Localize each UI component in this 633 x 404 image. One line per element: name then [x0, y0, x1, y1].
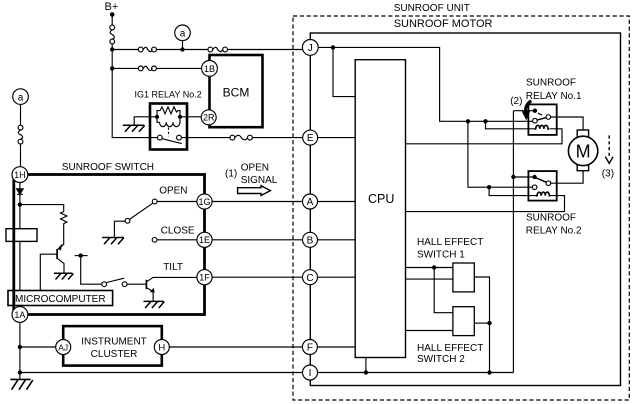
- motor M: [568, 136, 597, 165]
- svg-text:B+: B+: [105, 1, 119, 13]
- wire to relay2 NO contact: [468, 121, 532, 187]
- pin 1E: [197, 232, 212, 247]
- IG1 relay switch: [157, 128, 181, 144]
- fuse F3 (J-line right): [208, 47, 228, 52]
- SECTION:BOTTOMLEFT: [212, 3, 629, 400]
- pin 2R: [201, 110, 216, 125]
- ground (under Q1): [54, 273, 74, 279]
- node junction tilt feed: [75, 253, 102, 284]
- svg-text:1F: 1F: [199, 273, 210, 283]
- wire hall2 output: [474, 322, 489, 324]
- fuse F2 (J-line left): [138, 47, 156, 52]
- node junction I branch: [18, 370, 22, 374]
- connector F: [302, 340, 317, 355]
- (1) OPEN SIGNAL annotation: [225, 163, 278, 186]
- wire IG1 coil to pin 2R: [182, 116, 201, 118]
- node junction AJ branch: [18, 345, 22, 349]
- pin 1A: [12, 307, 28, 323]
- wire IG1 coil to ground: [134, 117, 155, 125]
- B+ supply terminal: [105, 1, 119, 17]
- SECTION:LEFT: [6, 162, 212, 322]
- svg-text:B: B: [307, 235, 314, 246]
- svg-text:OPEN: OPEN: [159, 186, 187, 197]
- svg-text:1E: 1E: [199, 235, 210, 245]
- connector C: [303, 270, 318, 285]
- ground (under Q2): [144, 301, 165, 308]
- node IG1 coil right: [178, 115, 182, 119]
- fuse F5 (E-line): [230, 135, 252, 140]
- wire 1A to ground rail: [19, 322, 21, 379]
- svg-text:M: M: [576, 141, 591, 161]
- diode D1: [17, 189, 24, 195]
- svg-text:IG1 RELAY No.2: IG1 RELAY No.2: [135, 89, 202, 99]
- hall effect switch 2 box: [453, 307, 474, 336]
- svg-text:SWITCH 2: SWITCH 2: [417, 354, 465, 365]
- fuse F6: [18, 125, 23, 144]
- wire relay2 output to motor: [551, 171, 583, 184]
- connector a (top): [175, 25, 191, 50]
- node junction hall branch: [432, 265, 436, 269]
- wire to AJ: [20, 346, 56, 348]
- svg-text:MICROCOMPUTER: MICROCOMPUTER: [15, 294, 106, 305]
- wire relay1 coil left lead: [486, 121, 536, 129]
- component box (switch illumination): [6, 229, 37, 242]
- svg-text:(2): (2): [510, 96, 522, 107]
- relay1 NC contact (to ground rail): [513, 109, 542, 116]
- svg-text:2R: 2R: [203, 113, 215, 123]
- wire 1E to B to CPU: [212, 239, 355, 241]
- svg-text:A: A: [307, 197, 314, 208]
- pin 1F: [197, 270, 212, 285]
- BCM module box: [210, 55, 263, 127]
- connector A: [303, 194, 318, 209]
- IG1 relay resistor: [157, 107, 180, 117]
- ground (OPEN switch): [102, 238, 124, 245]
- svg-text:OPEN: OPEN: [241, 163, 269, 174]
- wire H to connector F: [169, 346, 302, 348]
- node junction J/CPU branch: [331, 45, 335, 49]
- ground (main, bottom left): [10, 379, 32, 389]
- svg-text:SUNROOF MOTOR: SUNROOF MOTOR: [394, 18, 493, 30]
- svg-text:CLOSE: CLOSE: [161, 225, 195, 236]
- node junction B+/1B-line: [110, 66, 114, 70]
- relay2 NC contact: [513, 175, 536, 179]
- INSTRUMENT CLUSTER box: [63, 326, 162, 366]
- pin 1G: [197, 194, 212, 209]
- emitter arrowhead Q1: [58, 244, 63, 251]
- wire J-line inside unit: [318, 47, 532, 121]
- HALL EFFECT SWITCH 1 label: [417, 237, 483, 260]
- svg-text:HALL EFFECT: HALL EFFECT: [417, 343, 483, 354]
- wire relay2 coil left lead: [489, 187, 536, 195]
- wire I-line inside unit: [318, 372, 514, 374]
- SECTION:SWITCH: [10, 322, 302, 389]
- IG1 relay coil: [157, 117, 180, 127]
- svg-text:AJ: AJ: [58, 342, 68, 352]
- relay1 armature and contacts: [533, 115, 551, 123]
- emitter arrowhead Q2: [150, 288, 155, 293]
- wire CPU to hall1 lower: [406, 278, 453, 280]
- node junction halls to I-line: [487, 370, 491, 374]
- svg-text:1G: 1G: [198, 197, 210, 207]
- node junction relay2 coil feed: [487, 185, 491, 189]
- transistor Q2: [146, 277, 197, 300]
- connector B: [303, 232, 318, 247]
- svg-text:F: F: [307, 343, 313, 354]
- connector I: [303, 365, 318, 380]
- TILT switch: [102, 278, 127, 286]
- svg-text:C: C: [306, 273, 313, 284]
- wire CPU bottom stub: [365, 358, 367, 373]
- pin H: [154, 340, 169, 355]
- SECTION:UNIT: [406, 77, 615, 372]
- wire box to microcomputer: [19, 241, 21, 290]
- node junctions on J feed line: [466, 119, 470, 123]
- node junction B+/J-line: [110, 47, 114, 51]
- svg-text:E: E: [307, 133, 314, 144]
- wire relay2 coil right to CPU: [406, 196, 565, 212]
- wire IG1 switch output to connector E (with fuse): [181, 137, 302, 139]
- sunroof unit dashed box: [293, 16, 629, 400]
- wire E to CPU: [318, 137, 356, 139]
- relay1 coil: [535, 125, 549, 129]
- pin 1H: [12, 167, 28, 183]
- OPEN switch: [114, 199, 196, 237]
- resistor R1: [61, 212, 67, 226]
- svg-text:SWITCH 1: SWITCH 1: [417, 249, 465, 260]
- sunroof switch box: [14, 175, 205, 315]
- connector E: [303, 130, 318, 145]
- node junction under connector a: [180, 47, 184, 51]
- fuse F4 (1B-line): [138, 66, 156, 71]
- node junction relay2 common: [511, 175, 515, 179]
- wire B+ vertical rail: [112, 15, 157, 138]
- svg-text:(1): (1): [225, 169, 237, 180]
- node junction below 1H: [18, 202, 22, 206]
- hall effect switch 1 box: [453, 263, 474, 292]
- fuse F1 (B+ rail, vertical): [110, 25, 115, 44]
- wire branch to resistor: [20, 205, 64, 212]
- svg-text:H: H: [158, 343, 165, 354]
- wire CPU to hall2 lower: [406, 330, 453, 332]
- svg-text:1A: 1A: [14, 310, 25, 320]
- svg-text:RELAY No.2: RELAY No.2: [526, 226, 582, 237]
- HALL EFFECT SWITCH 2 label: [417, 343, 483, 365]
- node junction CPU ground stub: [364, 370, 368, 374]
- svg-text:a: a: [18, 92, 24, 103]
- svg-text:INSTRUMENT: INSTRUMENT: [81, 337, 147, 348]
- wire 1G to A to CPU: [212, 201, 355, 203]
- svg-text:SUNROOF: SUNROOF: [526, 77, 576, 88]
- wire resistor to transistor: [58, 226, 64, 250]
- node IG1 coil left: [155, 115, 159, 119]
- svg-text:SUNROOF SWITCH: SUNROOF SWITCH: [62, 162, 154, 173]
- sunroof motor box: [310, 33, 620, 386]
- svg-text:CLUSTER: CLUSTER: [91, 349, 138, 360]
- svg-text:1B: 1B: [204, 64, 215, 74]
- wire a to 1H with fuse F6: [20, 104, 22, 166]
- relay2 coil: [536, 192, 550, 196]
- svg-text:SIGNAL: SIGNAL: [241, 175, 278, 186]
- pin 1B: [202, 61, 218, 77]
- pin AJ: [56, 340, 71, 355]
- wire hall1 output: [474, 277, 489, 373]
- ground (IG1 relay): [123, 125, 145, 132]
- wire 1H down: [19, 183, 21, 229]
- wire J branch to CPU: [333, 47, 355, 96]
- wire relay1 coil right to CPU: [406, 129, 563, 144]
- CLOSE switch contact: [152, 237, 197, 242]
- relay2 armature and contacts: [532, 178, 550, 190]
- svg-text:HALL EFFECT: HALL EFFECT: [417, 237, 483, 248]
- sunroof relay No.2 box: [528, 171, 556, 201]
- open signal block arrow: [238, 186, 271, 196]
- svg-text:RELAY No.1: RELAY No.1: [526, 91, 582, 102]
- wire CPU to hall1 upper: [406, 267, 453, 269]
- wire hall branch to hall2 upper: [434, 268, 453, 313]
- wire relay1 output to motor: [551, 117, 584, 130]
- actuation arrow (2): [522, 101, 532, 121]
- svg-text:BCM: BCM: [223, 86, 250, 100]
- wire 1F to C to CPU: [212, 276, 355, 278]
- svg-text:SUNROOF: SUNROOF: [526, 213, 576, 224]
- MICROCOMPUTER box: [8, 291, 113, 306]
- SUNROOF RELAY No.2 label: [526, 213, 582, 237]
- SUNROOF RELAY No.1 label: [526, 77, 582, 102]
- svg-text:CPU: CPU: [368, 192, 394, 206]
- wire I-line (ground to connector I): [20, 372, 303, 374]
- ground-rail vertical (relay commons to I): [512, 111, 514, 373]
- connector a (left column): [13, 89, 29, 105]
- svg-text:J: J: [308, 43, 313, 54]
- sunroof relay No.1 box: [528, 104, 556, 134]
- connector J: [302, 40, 318, 56]
- motor M terminals: [577, 130, 588, 137]
- node junction hall2/hall1: [487, 321, 491, 325]
- svg-text:1H: 1H: [14, 170, 26, 180]
- svg-text:TILT: TILT: [163, 262, 183, 273]
- svg-text:SUNROOF UNIT: SUNROOF UNIT: [394, 3, 470, 14]
- IG1 relay box: [150, 104, 187, 150]
- wire tilt contact to Q2 base: [127, 283, 146, 285]
- wire 1B-line: [112, 67, 201, 69]
- wire J-line (B+ to connector J): [112, 49, 302, 51]
- dashed motion arrow (3): [605, 135, 613, 163]
- svg-text:(3): (3): [602, 168, 614, 179]
- svg-text:a: a: [180, 29, 186, 40]
- transistor Q1: [40, 249, 64, 291]
- svg-text:I: I: [309, 368, 312, 379]
- CPU box: [355, 60, 405, 358]
- wire F to CPU: [317, 346, 355, 348]
